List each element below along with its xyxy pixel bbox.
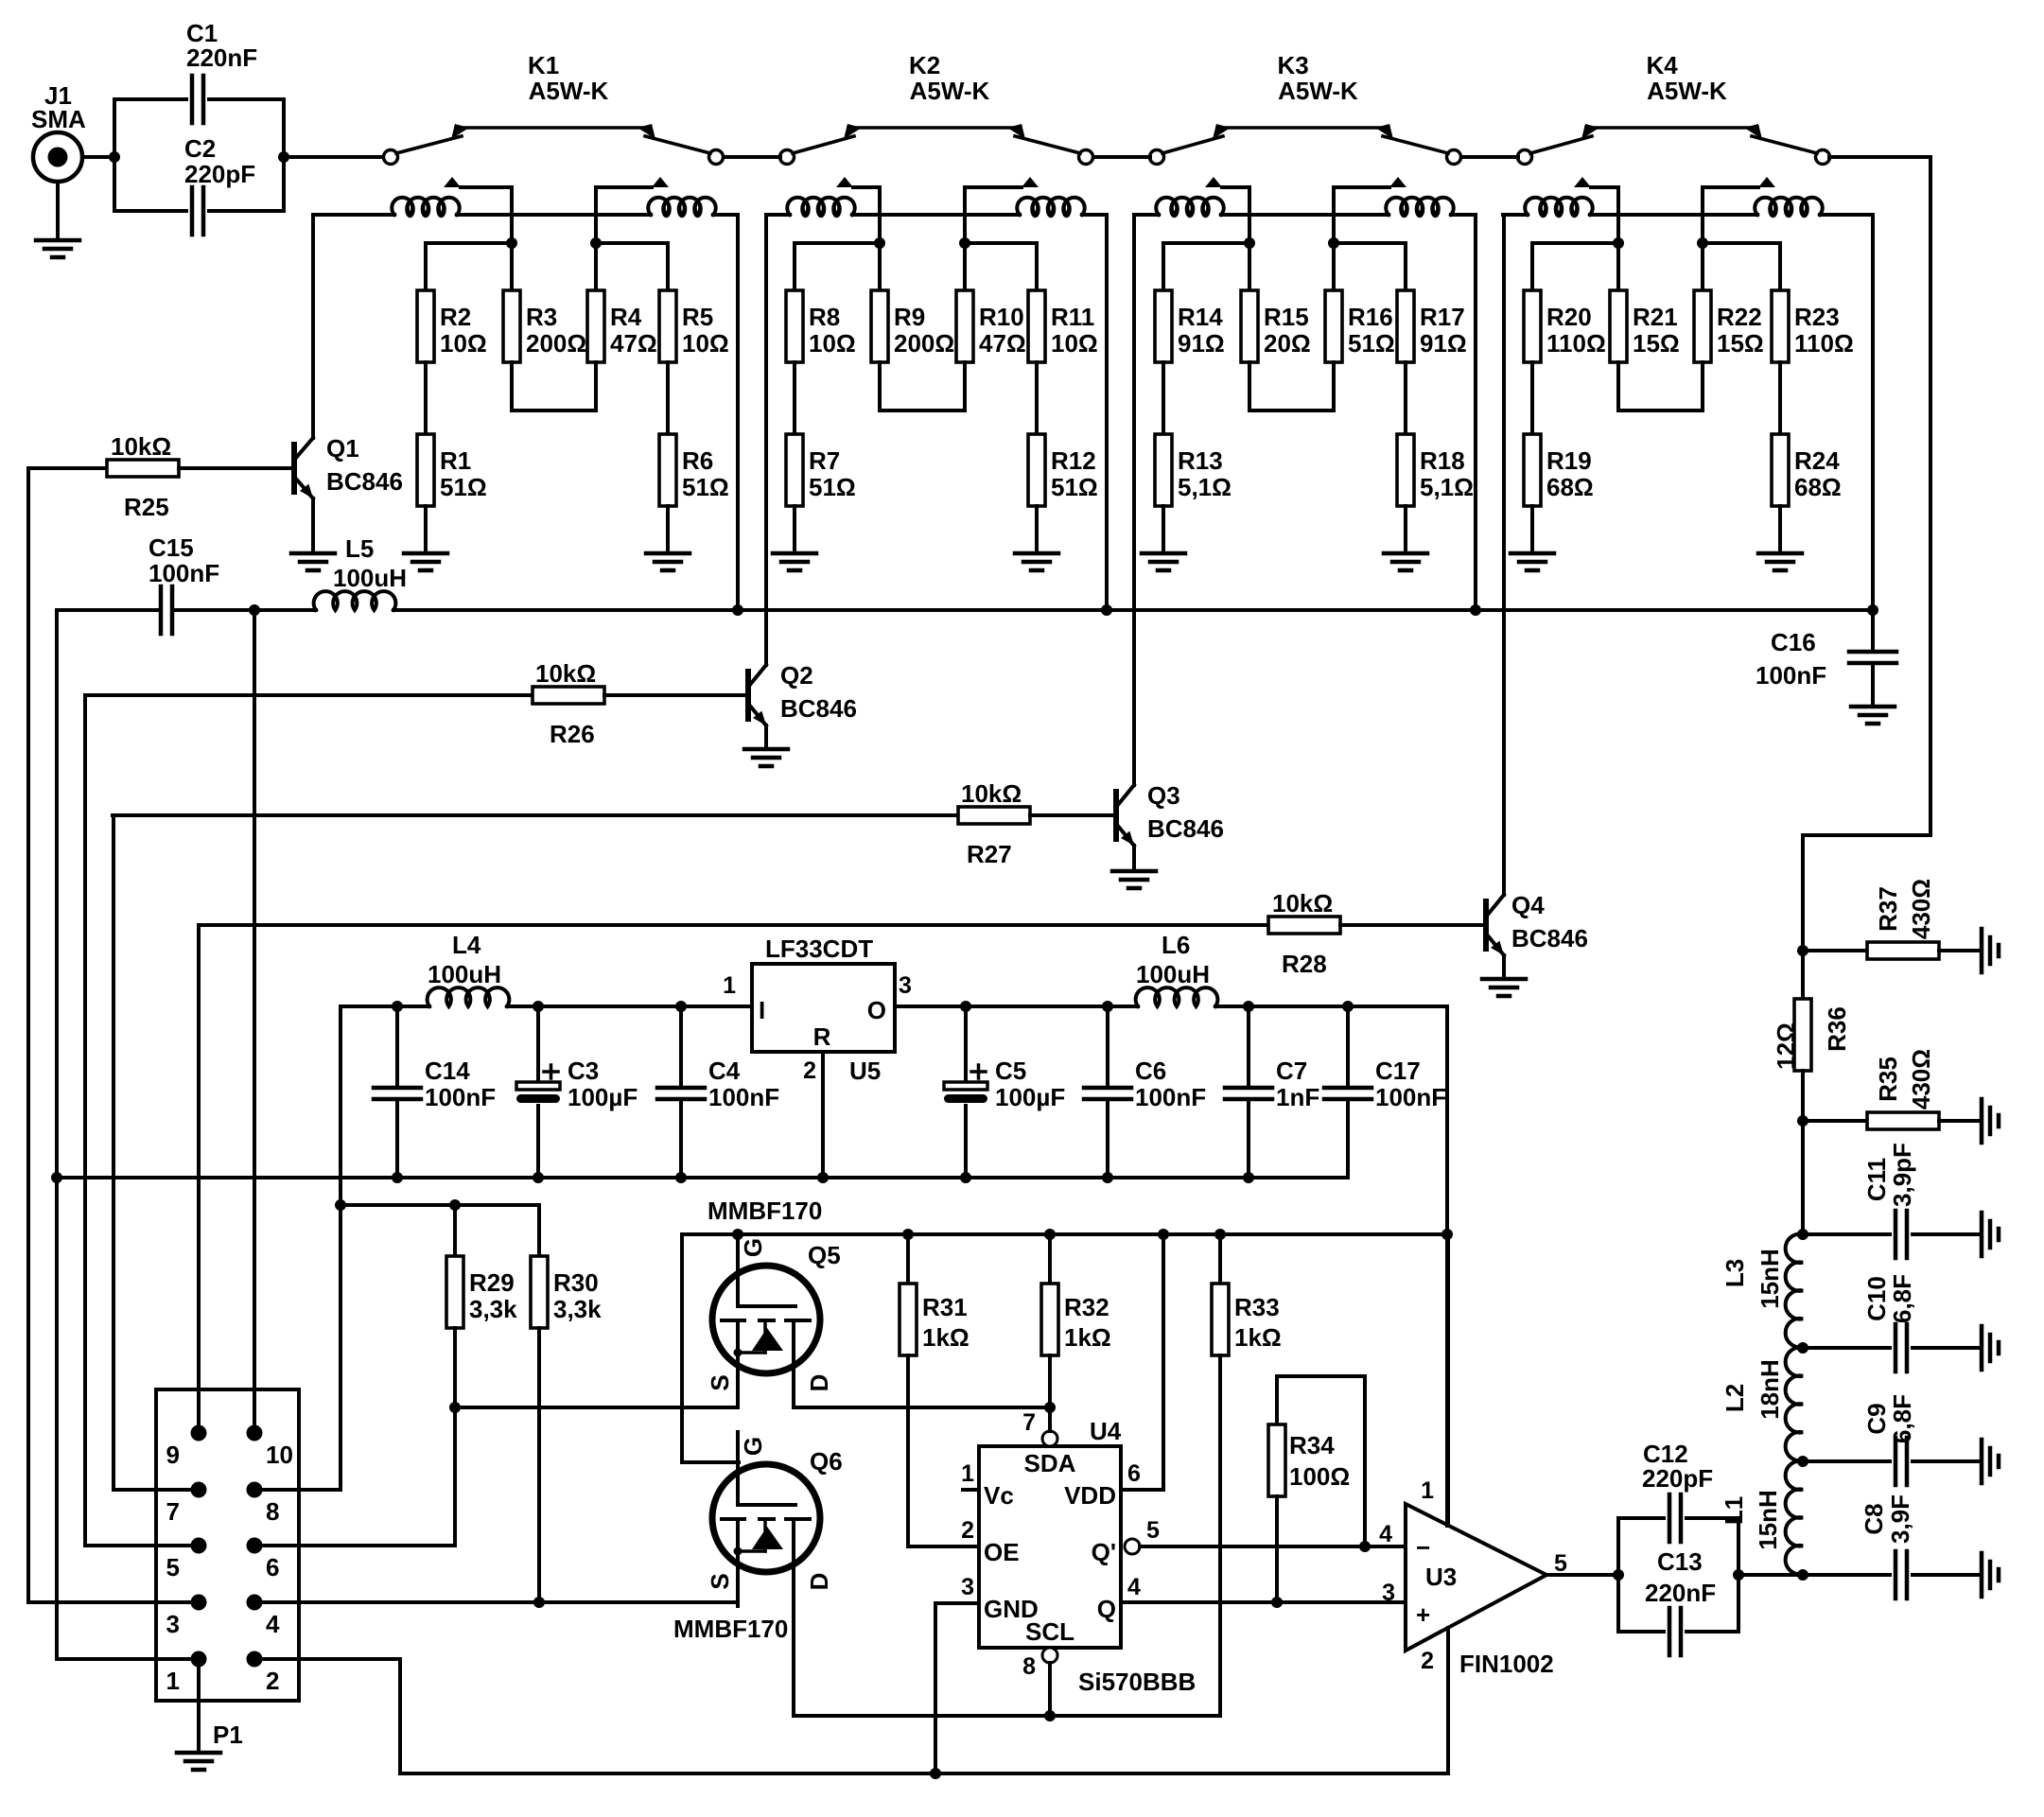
svg-text:R26: R26	[550, 720, 595, 748]
transistor Q1	[291, 215, 403, 570]
svg-text:C14: C14	[425, 1057, 470, 1085]
svg-text:K4: K4	[1647, 51, 1679, 79]
svg-text:C13: C13	[1657, 1547, 1703, 1576]
capacitor C2 220pF	[114, 134, 284, 235]
svg-text:110Ω: 110Ω	[1794, 329, 1854, 358]
wire between K2 and K3	[1093, 155, 1150, 159]
regulator U5 LF33CDT	[723, 935, 912, 1085]
svg-text:68Ω: 68Ω	[1794, 473, 1842, 501]
pin P1-3	[166, 1595, 207, 1639]
svg-text:A5W-K: A5W-K	[1647, 77, 1727, 105]
svg-text:P1: P1	[213, 1721, 243, 1749]
svg-text:VDD: VDD	[1064, 1481, 1116, 1510]
svg-text:A5W-K: A5W-K	[1278, 77, 1358, 105]
resistor R5 10Ω	[659, 290, 729, 362]
svg-text:12Ω: 12Ω	[1772, 1022, 1800, 1070]
svg-text:100nF: 100nF	[1375, 1083, 1446, 1111]
svg-text:3,9F: 3,9F	[1886, 1494, 1914, 1544]
svg-text:100Ω: 100Ω	[1289, 1462, 1350, 1491]
svg-text:68Ω: 68Ω	[1546, 473, 1594, 501]
wire C5 to C6	[966, 1005, 1108, 1008]
svg-text:Q4: Q4	[1511, 891, 1545, 919]
svg-text:R11: R11	[1051, 303, 1094, 331]
relay K1 A5W-K switch	[384, 51, 724, 187]
node R30 bottom	[533, 1597, 545, 1608]
wire K1 attenuator top rails	[426, 243, 668, 290]
mosfet Q5 MMBF170	[706, 1233, 833, 1407]
svg-text:R29: R29	[469, 1268, 515, 1297]
capacitor C12 220pF	[1613, 1440, 1738, 1632]
svg-text:+: +	[1416, 1600, 1430, 1629]
svg-text:6: 6	[266, 1553, 279, 1581]
svg-text:R30: R30	[553, 1268, 599, 1297]
wire K1 output vertical	[590, 187, 602, 249]
capacitor C16 100nF	[1756, 610, 1896, 724]
svg-text:G: G	[739, 1238, 767, 1257]
svg-text:4: 4	[266, 1610, 280, 1638]
resistor R21 15Ω	[1610, 290, 1680, 362]
capacitor C14 100nF	[374, 1001, 496, 1178]
svg-text:51Ω: 51Ω	[440, 473, 487, 501]
resistor R14 91Ω	[1155, 290, 1225, 362]
svg-text:100nF: 100nF	[1135, 1083, 1206, 1111]
svg-text:L5: L5	[345, 534, 374, 563]
wire K1 shunt mid R1	[424, 362, 428, 434]
svg-text:R4: R4	[610, 303, 642, 331]
svg-text:R7: R7	[809, 446, 840, 475]
inductor L6 100uH	[1108, 931, 1447, 1006]
resistor R2 10Ω	[417, 290, 487, 362]
svg-text:100nF: 100nF	[425, 1083, 496, 1111]
svg-text:5: 5	[1554, 1550, 1567, 1577]
capacitor C1 220nF	[114, 19, 284, 123]
svg-text:C15: C15	[148, 533, 194, 562]
svg-text:2: 2	[266, 1667, 279, 1695]
inductor L1 15nH	[1720, 1461, 1803, 1575]
wire K4 output vertical	[1697, 187, 1708, 249]
svg-text:100uH: 100uH	[1136, 960, 1210, 988]
svg-text:1: 1	[1421, 1477, 1434, 1504]
svg-text:1: 1	[961, 1460, 974, 1487]
wire P1 pin4 right	[254, 1600, 539, 1604]
wire P1 pin1 left-up	[57, 610, 199, 1659]
svg-text:8: 8	[1022, 1653, 1036, 1680]
svg-text:10: 10	[266, 1441, 293, 1469]
svg-text:U4: U4	[1090, 1417, 1122, 1445]
wire P1 pin7 left-up	[113, 815, 199, 1490]
resistor R4 47Ω	[587, 290, 657, 362]
wire K4 shunt mid R24	[1778, 362, 1782, 434]
capacitor C6 100nF	[1084, 1001, 1206, 1178]
relay K2 A5W-K switch	[780, 51, 1093, 187]
svg-text:3,9pF: 3,9pF	[1888, 1143, 1916, 1207]
ground P1 pin1	[177, 1659, 220, 1770]
svg-text:R32: R32	[1064, 1293, 1109, 1321]
svg-text:1nF: 1nF	[1276, 1083, 1319, 1111]
svg-text:91Ω: 91Ω	[1420, 329, 1467, 358]
svg-text:SCL: SCL	[1025, 1617, 1074, 1646]
svg-text:C2: C2	[184, 134, 216, 163]
svg-text:3,3k: 3,3k	[553, 1295, 602, 1323]
svg-text:Q2: Q2	[780, 661, 813, 690]
resistor R13 5,1Ω	[1155, 434, 1232, 506]
wire K3 shunt mid R13	[1162, 362, 1165, 434]
resistor R3 200Ω	[503, 290, 586, 362]
svg-text:10kΩ: 10kΩ	[1272, 889, 1333, 917]
svg-text:6,8F: 6,8F	[1888, 1274, 1916, 1323]
wire K1 frame right to bus	[732, 215, 743, 616]
svg-text:K1: K1	[528, 51, 559, 79]
resistor R15 20Ω	[1241, 290, 1311, 362]
svg-text:110Ω: 110Ω	[1546, 329, 1606, 358]
svg-text:L2: L2	[1721, 1384, 1749, 1412]
wire 3.3V down to rail B	[1441, 1006, 1453, 1526]
svg-text:R10: R10	[979, 303, 1024, 331]
pin P1-1	[166, 1651, 207, 1696]
svg-text:R18: R18	[1420, 446, 1465, 475]
capacitor C11 3,9pF	[1797, 1143, 1999, 1258]
wire rail B 3.3V	[682, 1229, 1447, 1462]
svg-text:10kΩ: 10kΩ	[111, 432, 171, 461]
wire K3 output vertical	[1328, 187, 1339, 249]
svg-text:15Ω: 15Ω	[1633, 329, 1680, 358]
svg-text:SDA: SDA	[1024, 1449, 1076, 1477]
svg-text:15nH: 15nH	[1756, 1249, 1784, 1309]
wire K4 series link	[1618, 362, 1703, 411]
svg-text:R9: R9	[894, 303, 925, 331]
svg-text:U5: U5	[849, 1057, 881, 1085]
relay K4 coil	[1503, 198, 1873, 217]
wire U4 GND down	[930, 1603, 979, 1779]
resistor R22 15Ω	[1694, 290, 1764, 362]
svg-text:C10: C10	[1862, 1276, 1891, 1321]
connector P1 box	[156, 1389, 299, 1749]
wire Q6 source line	[539, 1600, 738, 1604]
resistor R36 12	[1772, 951, 1851, 1121]
svg-text:O: O	[867, 996, 886, 1024]
wire K2 input vertical	[874, 187, 885, 249]
ground below R19	[1511, 506, 1554, 570]
wire regulator ground rail	[51, 1172, 1348, 1183]
wire K3 shunt mid R18	[1404, 362, 1407, 434]
mosfet Q6 MMBF170	[706, 1432, 833, 1716]
resistor R24 68Ω	[1772, 434, 1842, 506]
svg-text:20Ω: 20Ω	[1264, 329, 1311, 358]
inductor L2 18nH	[1721, 1348, 1803, 1461]
wire U5 pin2 to ground rail	[817, 1052, 829, 1183]
svg-text:R34: R34	[1289, 1431, 1335, 1459]
svg-text:C7: C7	[1276, 1057, 1307, 1085]
pin P1-4	[247, 1595, 281, 1639]
svg-text:3: 3	[166, 1610, 180, 1638]
wire P1 pin5 left-up	[85, 695, 199, 1546]
svg-text:R28: R28	[1282, 950, 1327, 978]
svg-text:10kΩ: 10kΩ	[961, 779, 1022, 808]
svg-text:D: D	[805, 1573, 833, 1591]
svg-text:10Ω: 10Ω	[440, 329, 487, 358]
svg-text:1kΩ: 1kΩ	[1064, 1323, 1111, 1352]
svg-text:R27: R27	[967, 840, 1012, 868]
svg-text:220nF: 220nF	[186, 44, 257, 72]
svg-text:R37: R37	[1874, 886, 1902, 932]
wire VDD feed	[1162, 1234, 1165, 1490]
relay K1 coil	[313, 198, 738, 217]
svg-text:51Ω: 51Ω	[1051, 473, 1098, 501]
svg-text:A5W-K: A5W-K	[910, 77, 990, 105]
ground below R6	[646, 506, 690, 570]
node box output	[278, 151, 384, 163]
svg-text:3,3k: 3,3k	[469, 1295, 517, 1323]
wire K3 input vertical	[1244, 187, 1255, 249]
wire Q5 drain line	[794, 1402, 1056, 1413]
capacitor C15 100nF	[57, 533, 254, 634]
resistor R35 430	[1797, 1049, 1999, 1143]
svg-text:6,8F: 6,8F	[1888, 1394, 1916, 1443]
svg-text:5: 5	[1146, 1517, 1160, 1544]
ground below R12	[1015, 506, 1058, 570]
resistor R34 100	[1268, 1376, 1371, 1608]
ground below R13	[1142, 506, 1185, 570]
wire K2 shunt mid R7	[793, 362, 796, 434]
resistor R7 51Ω	[786, 434, 856, 506]
svg-text:8: 8	[266, 1497, 279, 1526]
svg-text:100nF: 100nF	[708, 1083, 779, 1111]
connector J1 SMA	[31, 81, 114, 257]
svg-text:47Ω: 47Ω	[610, 329, 657, 358]
svg-text:A5W-K: A5W-K	[529, 77, 609, 105]
resistor R26 10k	[85, 659, 745, 748]
svg-text:4: 4	[1379, 1521, 1392, 1547]
wire C box edges	[114, 99, 284, 211]
wire P1 pin10 up	[253, 610, 256, 1433]
svg-text:G: G	[739, 1437, 767, 1456]
svg-text:U3: U3	[1425, 1563, 1457, 1591]
svg-text:91Ω: 91Ω	[1178, 329, 1225, 358]
svg-text:BC846: BC846	[780, 694, 857, 723]
svg-text:Si570BBB: Si570BBB	[1078, 1668, 1196, 1696]
svg-text:R5: R5	[682, 303, 713, 331]
svg-text:2: 2	[961, 1517, 974, 1544]
svg-text:C8: C8	[1860, 1503, 1888, 1534]
wire Q5 source line	[455, 1406, 738, 1409]
svg-text:2: 2	[1421, 1648, 1434, 1674]
svg-text:10Ω: 10Ω	[1051, 329, 1098, 358]
svg-text:430Ω: 430Ω	[1907, 1049, 1935, 1109]
svg-text:Q': Q'	[1092, 1538, 1116, 1566]
svg-text:R35: R35	[1874, 1057, 1902, 1102]
svg-text:S: S	[706, 1573, 734, 1589]
svg-text:100µF: 100µF	[568, 1083, 638, 1111]
svg-text:1: 1	[166, 1667, 180, 1695]
wire R35 node to C11 node	[1801, 1121, 1805, 1234]
wire U5 output rail	[895, 1005, 966, 1008]
svg-text:FIN1002: FIN1002	[1459, 1650, 1554, 1678]
oscillator U4 Si570BBB	[961, 1407, 1406, 1716]
pin P1-6	[247, 1538, 280, 1582]
resistor R12 51Ω	[1028, 434, 1098, 506]
resistor R11 10Ω	[1028, 290, 1098, 362]
svg-text:220pF: 220pF	[1642, 1464, 1713, 1493]
svg-text:7: 7	[166, 1497, 180, 1526]
ground below R18	[1384, 506, 1427, 570]
svg-text:MMBF170: MMBF170	[673, 1615, 788, 1643]
svg-text:5: 5	[166, 1553, 180, 1581]
relay K3 A5W-K switch	[1150, 51, 1461, 187]
inductor L4 100uH	[428, 931, 752, 1006]
svg-text:MMBF170: MMBF170	[708, 1197, 822, 1225]
wire C13 to L1 node	[1738, 1569, 1808, 1581]
wire K1 input vertical	[506, 187, 517, 249]
svg-text:R8: R8	[809, 303, 840, 331]
svg-text:100nF: 100nF	[1756, 661, 1826, 690]
svg-text:200Ω: 200Ω	[894, 329, 954, 358]
svg-text:C3: C3	[568, 1057, 599, 1085]
svg-text:C4: C4	[708, 1057, 741, 1085]
wire rail A 5V	[335, 1199, 539, 1211]
svg-text:100uH: 100uH	[333, 564, 407, 592]
node J1 to box	[109, 151, 120, 163]
driver U3 FIN1002	[1379, 1237, 1618, 1773]
svg-text:C5: C5	[995, 1057, 1026, 1085]
wire K3 attenuator top rails	[1163, 243, 1406, 290]
relay K2 coil	[766, 198, 1107, 217]
resistor R37 430	[1797, 835, 1999, 972]
svg-text:51Ω: 51Ω	[682, 473, 729, 501]
svg-text:100µF: 100µF	[995, 1083, 1065, 1111]
resistor R1 51Ω	[417, 434, 487, 506]
svg-text:S: S	[706, 1374, 734, 1390]
svg-text:51Ω: 51Ω	[1348, 329, 1395, 358]
ground below R1	[404, 506, 447, 570]
wire between K3 and K4	[1461, 155, 1518, 159]
svg-text:R22: R22	[1717, 303, 1762, 331]
svg-text:100nF: 100nF	[148, 559, 219, 587]
capacitor C13 220nF	[1618, 1518, 1744, 1655]
svg-text:R13: R13	[1178, 446, 1223, 475]
svg-text:C9: C9	[1862, 1403, 1891, 1434]
inductor L5 100uH	[254, 534, 738, 610]
svg-text:Q: Q	[1097, 1595, 1116, 1623]
svg-text:Q1: Q1	[326, 434, 359, 463]
svg-text:51Ω: 51Ω	[809, 473, 856, 501]
svg-text:15nH: 15nH	[1754, 1490, 1782, 1550]
svg-text:Q3: Q3	[1147, 781, 1180, 810]
svg-text:Q6: Q6	[810, 1447, 843, 1476]
svg-text:R24: R24	[1794, 446, 1840, 475]
svg-text:R31: R31	[922, 1293, 968, 1321]
svg-text:1kΩ: 1kΩ	[922, 1323, 970, 1352]
wire K3 frame right to bus	[1470, 215, 1481, 616]
resistor R29 3,3k	[446, 1199, 517, 1546]
svg-text:K2: K2	[909, 51, 940, 79]
resistor R20 110Ω	[1524, 290, 1606, 362]
resistor R6 51Ω	[659, 434, 729, 506]
svg-text:R14: R14	[1178, 303, 1223, 331]
svg-text:15Ω: 15Ω	[1717, 329, 1764, 358]
wire K2 series link	[880, 362, 965, 411]
svg-text:2: 2	[803, 1057, 816, 1084]
pin P1-8	[247, 1482, 280, 1527]
resistor R32 1k	[1041, 1234, 1111, 1431]
wire P1 pin8 right	[254, 1488, 262, 1492]
svg-text:R: R	[813, 1022, 831, 1051]
wire P1 pin3 left-up	[28, 468, 199, 1602]
wire main DC bus	[738, 608, 1873, 612]
transistor Q3	[1112, 215, 1224, 888]
pin P1-9	[166, 1425, 207, 1470]
svg-text:5,1Ω: 5,1Ω	[1420, 473, 1474, 501]
resistor R16 51Ω	[1325, 290, 1395, 362]
svg-text:R12: R12	[1051, 446, 1096, 475]
svg-text:R6: R6	[682, 446, 713, 475]
svg-text:10Ω: 10Ω	[682, 329, 729, 358]
capacitor C7 1nF	[1225, 1001, 1319, 1178]
ground below R7	[773, 506, 816, 570]
svg-text:Vc: Vc	[984, 1481, 1014, 1510]
svg-text:D: D	[805, 1374, 833, 1392]
transistor Q4	[1482, 215, 1588, 996]
capacitor C8 3,9F	[1803, 1494, 1999, 1599]
transistor Q2	[744, 215, 857, 766]
svg-text:10kΩ: 10kΩ	[535, 659, 596, 688]
svg-text:BC846: BC846	[1511, 924, 1588, 952]
svg-text:C6: C6	[1135, 1057, 1166, 1085]
relay K4 A5W-K switch	[1518, 51, 1830, 187]
wire K4 shunt mid R19	[1530, 362, 1534, 434]
svg-text:200Ω: 200Ω	[526, 329, 586, 358]
svg-text:R16: R16	[1348, 303, 1393, 331]
wire K4 input vertical	[1613, 187, 1624, 249]
svg-text:BC846: BC846	[1147, 814, 1224, 843]
svg-text:L3: L3	[1721, 1259, 1749, 1287]
resistor R30 3,3k	[531, 1205, 602, 1602]
wire 5V feed rail	[262, 1006, 341, 1490]
svg-text:R19: R19	[1546, 446, 1592, 475]
svg-text:3: 3	[899, 972, 912, 999]
pin P1-2	[247, 1651, 280, 1696]
svg-text:C16: C16	[1771, 628, 1816, 656]
wire K2 frame right to bus	[1101, 215, 1112, 616]
wire K4 frame right to bus	[1867, 215, 1878, 616]
svg-text:100uH: 100uH	[428, 960, 501, 988]
svg-text:18nH: 18nH	[1756, 1359, 1784, 1420]
svg-text:R17: R17	[1420, 303, 1465, 331]
svg-text:K3: K3	[1278, 51, 1309, 79]
svg-text:R25: R25	[124, 493, 169, 521]
svg-text:430Ω: 430Ω	[1907, 879, 1935, 939]
svg-text:−: −	[1416, 1533, 1430, 1562]
wire Q6 drain line to SCL	[794, 1710, 1220, 1721]
wire K1 series link	[512, 362, 596, 411]
wire K4 attenuator top rails	[1532, 243, 1780, 290]
svg-text:L6: L6	[1162, 931, 1190, 959]
resistor R27 10k	[113, 779, 1113, 868]
svg-text:5,1Ω: 5,1Ω	[1178, 473, 1232, 501]
pin P1-5	[166, 1538, 207, 1582]
svg-text:220pF: 220pF	[184, 160, 255, 188]
resistor R19 68Ω	[1524, 434, 1594, 506]
resistor R10 47Ω	[956, 290, 1026, 362]
svg-text:7: 7	[1022, 1409, 1036, 1436]
wire P1 pin2 bottom run	[254, 1659, 1448, 1773]
capacitor C4 100nF	[657, 1001, 779, 1178]
svg-text:L1: L1	[1720, 1496, 1748, 1525]
svg-text:L4: L4	[452, 931, 481, 959]
svg-text:47Ω: 47Ω	[979, 329, 1026, 358]
svg-text:R3: R3	[526, 303, 557, 331]
capacitor C3 100uF polarized	[516, 1001, 638, 1178]
wire K2 attenuator top rails	[795, 243, 1037, 290]
